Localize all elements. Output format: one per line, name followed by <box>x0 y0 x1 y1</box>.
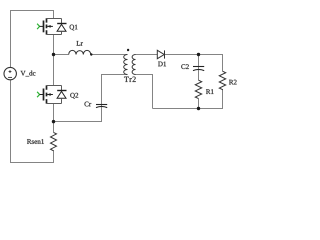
wire top rail <box>10 10 54 12</box>
label V_dc <box>21 71 36 77</box>
node dot Q2 source <box>52 120 55 123</box>
wire Cr to Q2 source node <box>54 121 102 123</box>
wire R2 bottom lead <box>222 90 224 108</box>
wire R2 branch top <box>222 55 224 72</box>
transistor Q1 <box>37 18 66 34</box>
wire Q1 drain lead <box>53 11 55 19</box>
label Tr2 <box>124 77 136 82</box>
channel bar Q2 <box>46 85 48 103</box>
gate arrow Q1 <box>37 24 40 29</box>
channel bar Q1 <box>46 18 48 34</box>
wire output bottom rail <box>153 108 224 110</box>
wire secondary top to D1 <box>136 54 158 56</box>
diode D1 <box>157 50 164 58</box>
wire secondary bottom lead <box>136 74 154 76</box>
capacitor Cr <box>96 105 107 108</box>
resistor Rsen1 <box>51 132 57 151</box>
wire Cr lower lead <box>101 107 103 123</box>
wire C2 branch top <box>198 55 200 70</box>
body diode Q2 <box>57 86 66 104</box>
transformer Tr2 primary winding <box>124 55 128 75</box>
wire Rsen1 to bottom rail <box>53 151 55 163</box>
source bus Q2 <box>47 103 62 105</box>
capacitor C2 <box>193 67 204 71</box>
label Lr <box>77 41 83 46</box>
wire primary bottom lead <box>101 74 128 76</box>
transformer Tr2 primary phase dot <box>127 49 129 51</box>
voltage source V_dc <box>4 67 16 79</box>
wire secondary bottom down <box>152 75 154 109</box>
gate bar Q2 <box>43 89 45 101</box>
label D1 <box>158 62 166 67</box>
wire Q2 source to Rsen1 <box>53 104 55 133</box>
wire R1 bottom lead <box>198 99 200 109</box>
wire left rail lower <box>10 80 12 163</box>
label Q2 <box>70 93 78 99</box>
wire half-bridge midpoint Q1 source to Q2 drain <box>53 35 55 86</box>
node dot half-bridge midpoint <box>52 53 55 56</box>
wire left rail upper <box>10 10 12 68</box>
gate arrow Q2 <box>37 92 40 97</box>
resistor R1 <box>195 80 201 98</box>
wire Lr to transformer <box>92 54 128 56</box>
gate bar Q1 <box>43 21 45 33</box>
wire Cr upper lead <box>101 75 103 107</box>
transformer Tr2 secondary winding <box>132 55 135 75</box>
label Q1 <box>70 25 78 31</box>
transistor Q2 <box>37 85 66 103</box>
inductor Lr <box>69 50 91 54</box>
body diode Q1 <box>57 19 66 35</box>
body arrow Q2 <box>47 94 53 96</box>
drain bus Q1 <box>47 18 62 20</box>
label Rsen1 <box>27 139 44 144</box>
label R2 <box>229 80 237 85</box>
node dot output bottom <box>197 107 200 110</box>
source bus Q1 <box>47 34 62 36</box>
wire bottom rail <box>10 162 54 164</box>
label Cr <box>84 102 91 107</box>
label R1 <box>206 89 214 94</box>
label C2 <box>181 64 188 69</box>
wire midpoint to Lr <box>54 54 69 56</box>
drain bus Q2 <box>47 85 62 87</box>
wire C2 to R1 <box>198 70 200 81</box>
resistor R2 <box>219 71 225 90</box>
node dot Lr right terminal <box>90 53 92 55</box>
node dot output top <box>197 53 200 56</box>
wire D1 to output top rail <box>165 54 224 56</box>
body arrow Q1 <box>47 25 53 27</box>
